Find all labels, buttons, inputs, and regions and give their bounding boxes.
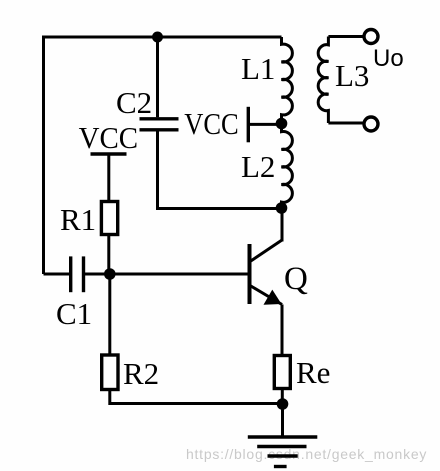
wire: left vertical rail: [42, 37, 45, 274]
svg-text:C1: C1: [56, 296, 92, 331]
wire: C2 bottom lead and feedback wire to L2 bottom: [158, 132, 282, 209]
terminal: output top circle: [364, 30, 378, 44]
wire: Re to ground node: [281, 389, 284, 405]
wire: node to ground: [281, 404, 284, 437]
inductor L3: [318, 37, 328, 124]
node: center tap junction dot: [276, 118, 288, 130]
wire: collector up to L2: [281, 209, 284, 242]
resistor R2: [102, 355, 118, 390]
node: top junction dot: [152, 32, 163, 43]
transistor Q1 emitter arrow: [264, 290, 282, 305]
svg-text:Q: Q: [284, 261, 308, 297]
svg-text:L1: L1: [241, 51, 275, 86]
wire: top horizontal rail: [42, 36, 282, 39]
wire: base wire to transistor: [110, 273, 248, 276]
wire: VCC to R1: [107, 154, 110, 202]
wire: L3 bottom lead: [328, 122, 363, 125]
resistor R1: [101, 202, 117, 235]
wire: left rail to C1: [44, 273, 71, 276]
capacitor C2: [140, 119, 179, 130]
transistor Q1 base bar: [248, 244, 252, 304]
resistor Re: [274, 356, 290, 389]
svg-text:Uo: Uo: [373, 45, 404, 72]
wire: emitter down to Re: [281, 305, 284, 356]
svg-text:https://blog.csdn.net/geek_mon: https://blog.csdn.net/geek_monkey: [186, 446, 427, 462]
inductor L2: [282, 124, 293, 209]
wire: C2 top lead: [156, 37, 159, 117]
ground symbol: [248, 437, 317, 467]
svg-text:C2: C2: [116, 85, 152, 120]
transistor Q1 emitter diagonal: [250, 286, 282, 305]
wire: L3 top lead: [328, 35, 363, 38]
svg-text:Re: Re: [296, 355, 330, 390]
transistor Q1 collector diagonal: [250, 240, 282, 262]
wire: R2 bottom to emitter ground node: [110, 390, 283, 404]
wire: C1 to base node: [84, 273, 110, 276]
svg-text:VCC: VCC: [79, 120, 139, 155]
terminal: output bottom circle: [364, 117, 378, 131]
wire: VCC tap to center tap: [248, 123, 281, 126]
power VCC bar (left): [91, 152, 127, 155]
svg-text:R1: R1: [60, 202, 96, 237]
capacitor C1: [71, 256, 84, 292]
svg-text:R2: R2: [123, 356, 159, 391]
svg-text:L3: L3: [335, 58, 369, 93]
svg-text:L2: L2: [241, 149, 275, 184]
node: L2 bottom junction dot: [276, 202, 288, 214]
power VCC tap bar: [247, 107, 250, 143]
svg-text:VCC: VCC: [184, 106, 239, 141]
node: base junction dot: [104, 268, 116, 280]
node: ground junction dot: [277, 398, 289, 410]
inductor L1: [282, 37, 293, 124]
wire: base node down to R2: [108, 274, 111, 355]
wire: R1 to base node: [107, 235, 110, 275]
